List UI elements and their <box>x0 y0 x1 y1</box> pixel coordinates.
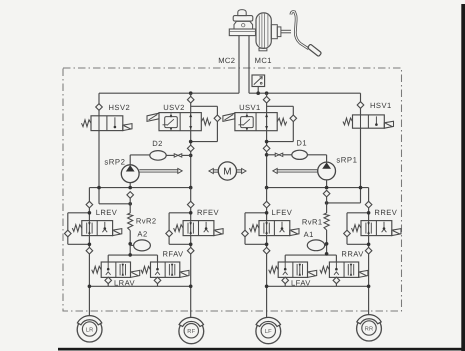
valve RFAV body <box>151 262 180 277</box>
wire pump sRP2 bottom <box>129 183 131 188</box>
node diamond below RFEV <box>187 247 194 254</box>
wire orifice to D1 <box>283 154 292 156</box>
caliper of LR <box>77 316 101 325</box>
wire left supply rail <box>89 187 190 189</box>
wire left AV return rail <box>108 254 157 256</box>
brake fluid reservoir cap rim <box>233 16 253 22</box>
svg-text:RR: RR <box>365 326 374 332</box>
valve USV1 bypass with check valve <box>267 105 294 107</box>
valve RRAV top port stub <box>335 255 337 262</box>
damper D1 <box>292 150 308 159</box>
wire USV2 column <box>190 93 192 187</box>
svg-text:RvR2: RvR2 <box>136 216 157 225</box>
port diamond below LFAV <box>282 277 289 284</box>
caliper of RF <box>179 317 203 326</box>
svg-text:D2: D2 <box>152 139 163 148</box>
valve USV2 bypass with check valve <box>191 105 218 107</box>
svg-text:LFEV: LFEV <box>272 208 293 217</box>
svg-text:USV2: USV2 <box>163 103 185 112</box>
spring of LRAV <box>92 266 102 273</box>
valve LREV bypass <box>68 212 90 214</box>
solenoid of USV1 <box>223 113 235 121</box>
svg-text:RREV: RREV <box>374 208 397 217</box>
valve RRAV body <box>329 262 358 277</box>
solenoid of RFAV <box>180 270 189 277</box>
valve HSV1 body <box>353 115 385 128</box>
node diamond on return line right <box>323 190 330 197</box>
motor M circle <box>218 162 236 180</box>
caliper of RR <box>357 315 381 324</box>
valve LRAV top port stub <box>107 255 109 262</box>
svg-text:LREV: LREV <box>96 208 118 217</box>
junction below USV1 <box>263 145 270 152</box>
valve RFEV bypass <box>169 212 191 214</box>
svg-text:A1: A1 <box>304 230 314 239</box>
node diamond on return line left <box>127 192 134 199</box>
valve USV1 body <box>235 113 277 131</box>
valve LFAV top port stub <box>284 255 286 262</box>
junction dots RREV <box>367 211 371 215</box>
wheel brake LF <box>256 319 281 344</box>
check valve of RFEV bypass <box>166 230 173 237</box>
node diamond above HSV2 <box>96 104 103 111</box>
wire right top rail MC1 to USV1/HSV1 <box>249 92 361 94</box>
wire right AV input rail <box>267 285 369 287</box>
wire D1 to pump sRP1 <box>307 154 326 156</box>
wire RR wheel column <box>368 201 370 220</box>
spring of LFEV <box>250 225 260 232</box>
wire sensor stub <box>257 87 259 94</box>
spring of HSV2 <box>82 120 92 127</box>
svg-text:sRP2: sRP2 <box>104 157 125 166</box>
wire orifice to USV2 line <box>182 154 191 156</box>
solenoid of LREV <box>113 229 122 236</box>
wire RF wheel column <box>190 188 192 221</box>
svg-text:USV1: USV1 <box>239 103 261 112</box>
brake fluid reservoir cap knob <box>238 10 246 16</box>
junction dots on top rails <box>189 91 193 95</box>
node diamond below LREV <box>86 247 93 254</box>
valve LRAV body <box>101 262 130 277</box>
node diamond above HSV1 <box>357 102 364 109</box>
booster rear discs <box>271 25 277 39</box>
node diamond below RREV <box>365 247 372 254</box>
spring of RFEV <box>174 225 184 232</box>
check valve of RREV bypass <box>344 230 351 237</box>
orifice on D2 line <box>174 154 182 157</box>
relief valve RvR2 <box>129 198 131 213</box>
solenoid of USV2 <box>147 113 159 121</box>
svg-text:RvR1: RvR1 <box>302 217 323 226</box>
orifice on D1 line <box>275 153 283 156</box>
svg-text:RRAV: RRAV <box>341 249 364 258</box>
wire D2 to orifice <box>166 154 174 156</box>
wire LR wheel column <box>88 201 90 220</box>
wheel brake RF <box>179 319 204 344</box>
master cylinder body MC <box>229 29 255 36</box>
svg-text:M: M <box>223 167 231 178</box>
port diamond below LRAV <box>105 277 112 284</box>
wheel brake LR <box>77 317 102 342</box>
svg-text:MC1: MC1 <box>255 56 272 65</box>
spring of LFAV <box>269 266 279 273</box>
solenoid of LFAV <box>308 270 317 277</box>
check valve of LREV bypass <box>65 230 72 237</box>
spring of USV2 <box>201 118 211 125</box>
junction dots RFEV <box>189 211 193 215</box>
booster lower stub <box>259 48 267 51</box>
svg-text:LF: LF <box>265 329 272 335</box>
node diamond above USV2 <box>187 96 194 103</box>
pump sRP2 <box>121 165 139 183</box>
brake pedal pad <box>307 44 321 57</box>
svg-text:LR: LR <box>86 327 94 333</box>
spring of USV1 <box>277 118 287 125</box>
junction dots LREV <box>88 211 92 215</box>
node diamond below LFEV <box>263 247 270 254</box>
svg-text:D1: D1 <box>296 138 307 147</box>
spring of RREV <box>352 225 362 232</box>
brake pedal arm <box>291 12 309 49</box>
wire right supply rail <box>267 187 369 189</box>
svg-text:RFEV: RFEV <box>197 208 220 217</box>
solenoid of HSV2 <box>123 124 132 131</box>
valve RFEV body <box>183 221 214 236</box>
wire HSV2 to return line <box>99 203 130 205</box>
spring of RRAV <box>320 266 330 273</box>
solenoid of LRAV <box>131 270 140 277</box>
valve RREV body <box>361 221 392 236</box>
brake fluid reservoir body <box>234 21 253 29</box>
port diamond below RFAV <box>154 277 161 284</box>
svg-text:RF: RF <box>187 329 195 335</box>
solenoid of RREV <box>392 229 401 236</box>
accumulator A2 <box>134 240 151 251</box>
scan frame bottom black line <box>58 348 465 351</box>
valve RREV bypass <box>347 212 369 214</box>
valve USV2 body <box>159 113 201 131</box>
node diamond above RREV <box>365 201 372 208</box>
node diamond above LFEV <box>263 201 270 208</box>
port diamond below RRAV <box>333 277 340 284</box>
svg-text:MC2: MC2 <box>218 56 235 65</box>
solenoid of LFEV <box>290 229 299 236</box>
spring of RFAV <box>141 266 151 273</box>
svg-text:HSV1: HSV1 <box>370 101 392 110</box>
dash-dot HECU boundary box <box>63 68 402 311</box>
junction dots LFEV <box>265 211 269 215</box>
svg-text:HSV2: HSV2 <box>109 103 131 112</box>
spring of HSV1 <box>343 118 353 125</box>
wire HSV2 output down <box>98 110 100 116</box>
wire HSV1 to return line <box>327 202 361 204</box>
pump sRP1 <box>318 162 336 180</box>
wire pump sRP1 bottom <box>326 180 328 188</box>
solenoid of RFEV <box>214 229 223 236</box>
wire left AV input rail <box>89 285 190 287</box>
relief valve RvR1 <box>326 197 328 213</box>
junction below USV2 <box>187 145 194 152</box>
valve RFAV top port stub <box>157 255 159 262</box>
wire pump sRP2 to D2 <box>130 154 150 156</box>
wire return line right to accumulator <box>326 230 328 254</box>
pressure sensor PMC <box>252 75 265 87</box>
valve LFEV bypass <box>245 212 267 214</box>
wire LF wheel column <box>266 188 268 221</box>
wire return line left to accumulator <box>129 231 131 255</box>
valve HSV2 body <box>91 116 123 131</box>
pushrod <box>281 29 291 31</box>
node diamond above RFEV <box>187 201 194 208</box>
junction dot D1 tap <box>265 153 269 157</box>
motor right shaft <box>237 169 243 171</box>
wire HSV1 output down <box>360 108 362 115</box>
svg-text:sRP1: sRP1 <box>336 155 357 164</box>
node diamond above LREV <box>86 201 93 208</box>
pump sRP1 drive shaft arrow <box>276 169 317 171</box>
valve LFAV body <box>278 262 307 277</box>
caliper of LF <box>256 317 280 326</box>
wire USV1 line to orifice <box>267 154 276 156</box>
solenoid of HSV1 <box>384 121 393 128</box>
vacuum booster <box>256 13 271 49</box>
accumulator A1 <box>307 240 324 251</box>
scan frame right black bar <box>461 4 465 351</box>
valve LFEV body <box>259 221 290 236</box>
svg-text:A2: A2 <box>137 229 147 238</box>
pump sRP2 drive shaft arrow <box>139 169 178 171</box>
damper D2 <box>150 151 166 161</box>
solenoid of RRAV <box>359 270 368 277</box>
spring of LREV <box>72 225 82 232</box>
wire left top rail MC2 to HSV2/USV2 <box>99 92 239 94</box>
motor left shaft <box>213 169 219 171</box>
node diamond above USV1 <box>263 96 270 103</box>
wire MC2 line from master cylinder <box>238 36 240 94</box>
wire right AV return rail <box>285 254 336 256</box>
wire USV1 column <box>266 93 268 187</box>
wheel brake RR <box>357 316 382 341</box>
check valve of LFEV bypass <box>242 230 249 237</box>
wire MC1 line from master cylinder <box>248 36 250 94</box>
junction dot D2 tap <box>189 154 193 158</box>
svg-text:RFAV: RFAV <box>163 249 185 258</box>
valve LREV body <box>82 221 113 236</box>
